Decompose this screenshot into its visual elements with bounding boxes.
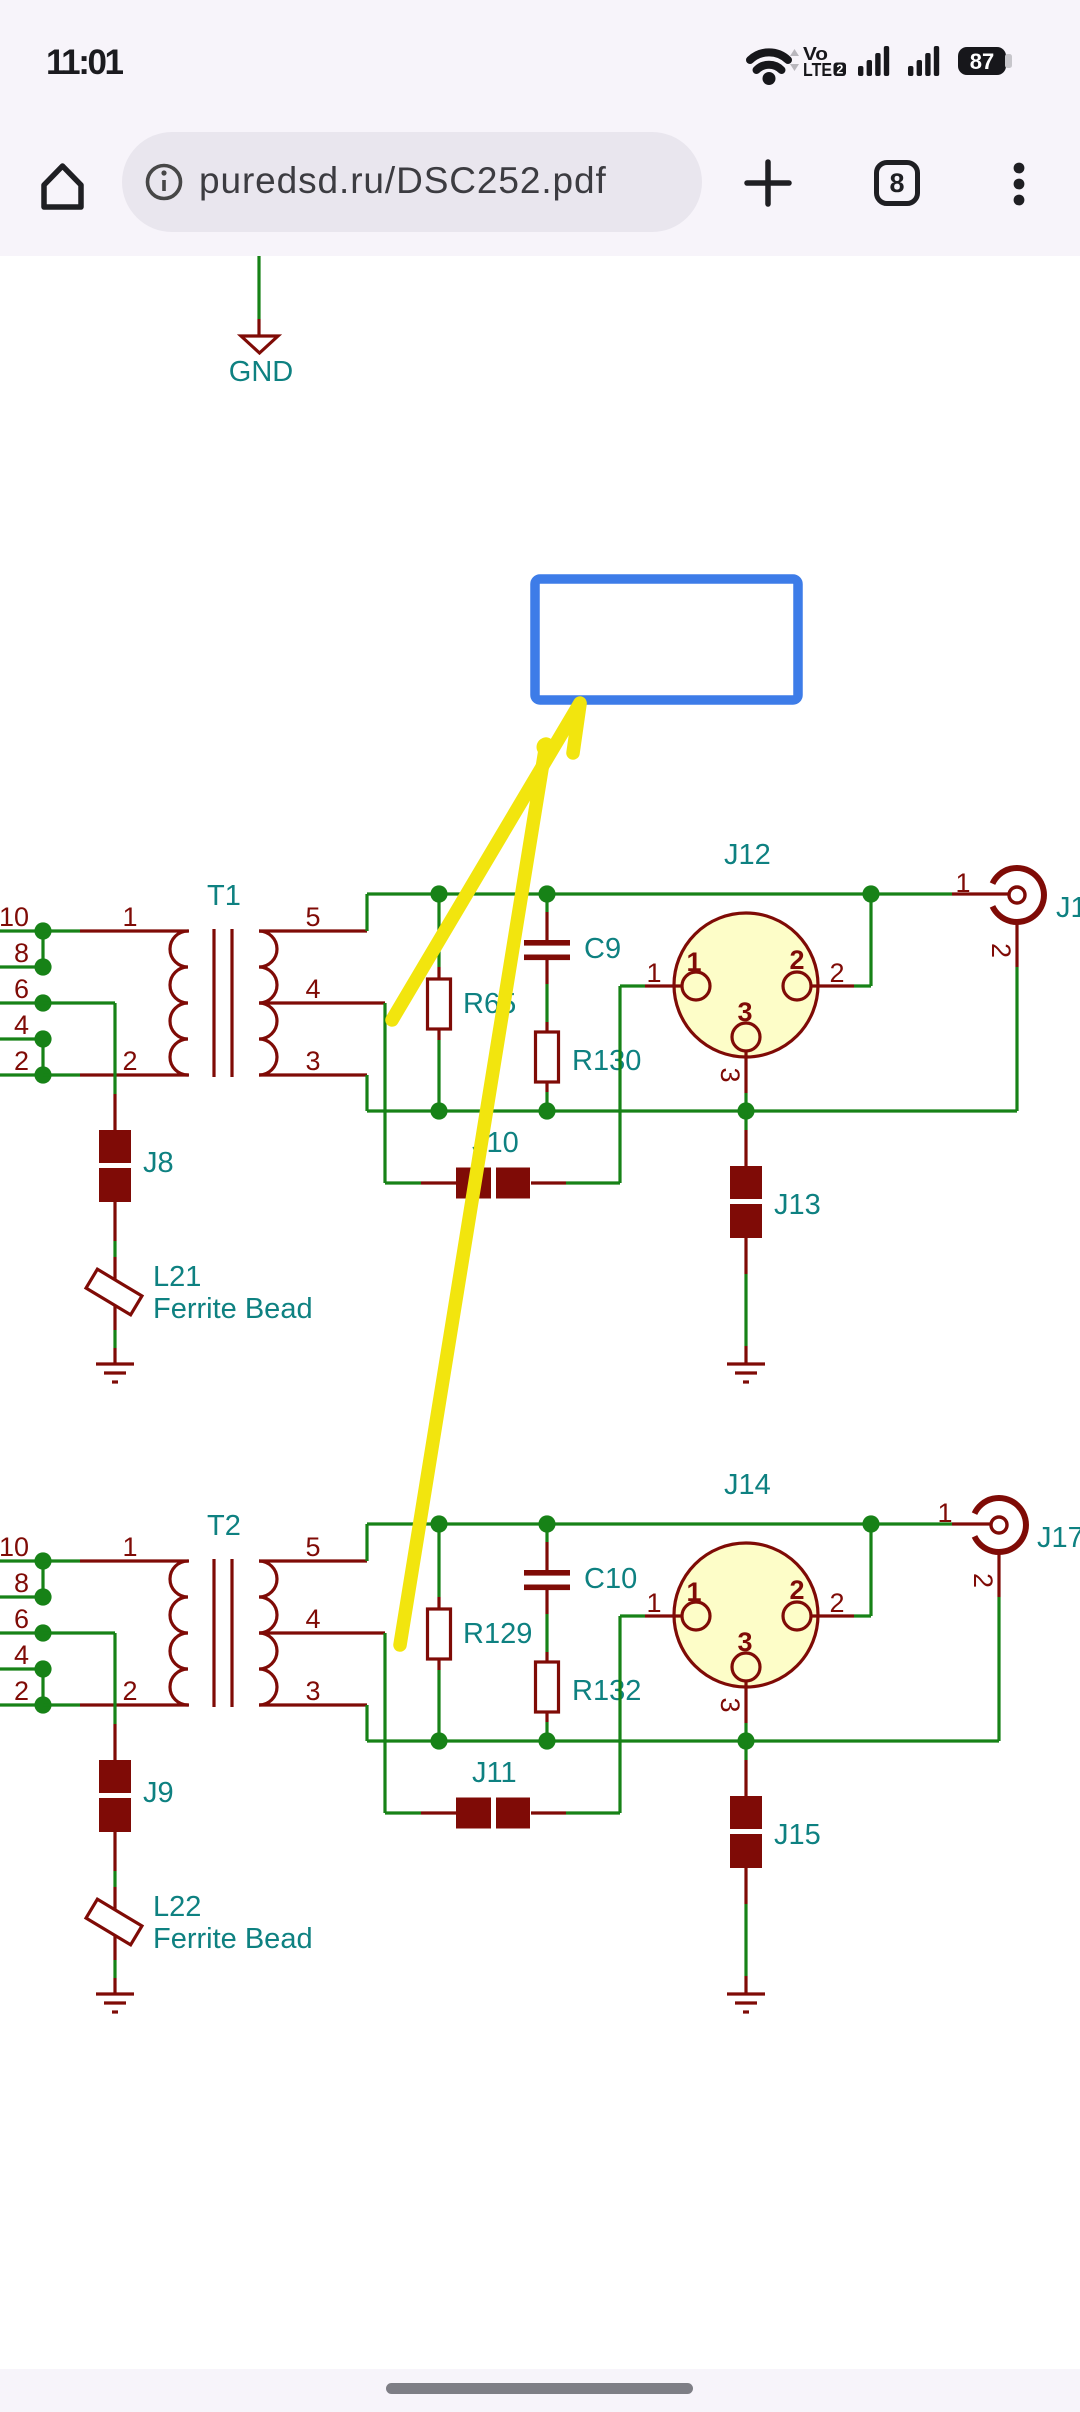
junction (737, 1102, 754, 1119)
ground pin (744, 1346, 747, 1363)
junction (34, 922, 51, 939)
jumper J15 (730, 1796, 821, 1868)
svg-text:2: 2 (829, 1588, 844, 1618)
svg-text:5: 5 (305, 902, 320, 932)
signal bars SIM1 (858, 46, 889, 76)
wire (385, 1181, 421, 1184)
wifi traffic arrows (790, 49, 799, 71)
coaxial connector J17 (975, 1498, 1080, 1554)
J16 pin2 stub (1015, 922, 1018, 967)
wire bus 10-8 (41, 931, 44, 967)
svg-text:2: 2 (836, 63, 843, 77)
wire (113, 1871, 116, 1887)
wire header pin 6 (0, 1631, 43, 1634)
svg-text:3: 3 (305, 1676, 320, 1706)
svg-text:GND: GND (229, 356, 293, 388)
J11 pin stub (531, 1811, 566, 1814)
svg-text:10: 10 (0, 902, 29, 932)
pin stub (437, 1029, 440, 1040)
XLR pin2 stub (811, 984, 854, 987)
L21 pin (113, 1257, 116, 1330)
wire (566, 1181, 620, 1184)
wire header pin 8 (0, 965, 43, 968)
XLR pin1 stub (645, 1614, 681, 1617)
wire bottom rail (367, 1739, 999, 1742)
XLR connector J12 (674, 839, 818, 1057)
wire (869, 894, 872, 986)
XLR pin3 stub (744, 1681, 747, 1723)
T pin 5 stub (259, 1559, 367, 1562)
wire (869, 1524, 872, 1616)
wire (744, 1111, 747, 1130)
coaxial connector J16 (993, 868, 1080, 924)
svg-text:87: 87 (970, 49, 994, 74)
pin stub (545, 1652, 548, 1662)
svg-text:1: 1 (686, 1577, 701, 1607)
junction (34, 994, 51, 1011)
wire (744, 1093, 747, 1111)
wire from GND net (257, 256, 260, 319)
svg-text:2: 2 (968, 1573, 998, 1588)
svg-text:2: 2 (14, 1676, 29, 1706)
pin stub (545, 1022, 548, 1032)
svg-text:6: 6 (14, 974, 29, 1004)
ground (96, 1364, 134, 1382)
svg-text:T2: T2 (207, 1510, 241, 1542)
svg-text:J9: J9 (143, 1777, 174, 1809)
svg-text:J12: J12 (724, 839, 771, 871)
svg-text:2: 2 (122, 1676, 137, 1706)
ground (96, 1994, 134, 2012)
svg-text:1: 1 (646, 1588, 661, 1618)
svg-text:C10: C10 (584, 1563, 637, 1595)
svg-text:C9: C9 (584, 933, 621, 965)
wire (744, 1741, 747, 1760)
wire header pin 8 (0, 1595, 43, 1598)
T pin 5 stub (259, 929, 367, 932)
T pin 4 stub (259, 1631, 385, 1634)
junction (862, 1515, 879, 1532)
wire (566, 1811, 620, 1814)
wire pin6 (43, 1001, 115, 1004)
transformer T2 (170, 1510, 277, 1707)
wire to T pin1 (43, 1559, 80, 1562)
svg-text:1: 1 (122, 1532, 137, 1562)
pin stub (437, 1597, 440, 1609)
ground GND power symbol (229, 336, 293, 388)
pin stub (545, 1711, 548, 1722)
svg-text:T1: T1 (207, 880, 241, 912)
svg-text:3: 3 (737, 997, 752, 1027)
J16 pin1 stub (952, 892, 1009, 895)
J17 pin2 stub (997, 1552, 1000, 1597)
svg-text:2: 2 (789, 1575, 804, 1605)
junction (34, 958, 51, 975)
svg-text:J8: J8 (143, 1147, 174, 1179)
svg-text:1: 1 (686, 947, 701, 977)
wire header pin 2 (0, 1073, 43, 1076)
J11 pin stub (421, 1811, 456, 1814)
T pin 4 stub (259, 1001, 385, 1004)
ground pin (744, 1976, 747, 1993)
wire bus 4-2 (41, 1039, 44, 1075)
J15 pin stub (744, 1868, 747, 1904)
wire (620, 1614, 645, 1617)
wire header pin 10 (0, 1559, 43, 1562)
wire (545, 984, 548, 1022)
capacitor C10 (524, 1563, 637, 1595)
svg-text:4: 4 (14, 1010, 29, 1040)
svg-text:3: 3 (305, 1046, 320, 1076)
wire pin5 riser (365, 1524, 368, 1561)
svg-text:L22: L22 (153, 1891, 201, 1923)
wire (744, 1723, 747, 1741)
junction (34, 1660, 51, 1677)
svg-text:J15: J15 (774, 1819, 821, 1851)
junction (538, 1102, 555, 1119)
resistor R130 (536, 1032, 642, 1082)
wifi icon (750, 52, 788, 70)
wire header pin 6 (0, 1001, 43, 1004)
wire (618, 1616, 621, 1813)
resistor R65 (428, 979, 517, 1029)
svg-text:Ferrite Bead: Ferrite Bead (153, 1293, 313, 1325)
svg-text:4: 4 (14, 1640, 29, 1670)
svg-text:J13: J13 (774, 1189, 821, 1221)
wire (437, 894, 440, 967)
T pin 2 stub (80, 1073, 189, 1076)
ground (727, 1364, 765, 1382)
wire pin5 riser (365, 894, 368, 931)
info icon (148, 166, 181, 199)
wire pin3 drop (365, 1075, 368, 1111)
svg-text:1: 1 (122, 902, 137, 932)
J17 pin1 stub (952, 1522, 991, 1525)
J13 pin stub (744, 1130, 747, 1166)
J8 pin stub (113, 1094, 116, 1132)
junction (430, 885, 447, 902)
transformer T1 (170, 880, 277, 1077)
svg-text:J17: J17 (1037, 1522, 1080, 1554)
svg-text:2: 2 (829, 958, 844, 988)
T pin 1 stub (80, 929, 189, 932)
wire top rail (367, 892, 952, 895)
wire (545, 894, 548, 912)
ferrite bead L21 (86, 1261, 313, 1325)
svg-text:3: 3 (715, 1697, 745, 1712)
ground pin (113, 1978, 116, 1993)
junction (538, 885, 555, 902)
J9 pin stub (113, 1832, 116, 1871)
wire bus 10-8 (41, 1561, 44, 1597)
svg-text:L21: L21 (153, 1261, 201, 1293)
wire (744, 1904, 747, 1976)
wire to T pin2 (43, 1073, 80, 1076)
jumper J8 (99, 1130, 174, 1202)
J8 pin stub (113, 1202, 116, 1241)
junction (430, 1515, 447, 1532)
resistor R132 (536, 1662, 642, 1712)
annotation marker stroke (long) (400, 744, 546, 1645)
wire (545, 1524, 548, 1542)
ground (727, 1994, 765, 2012)
wire pin4 drop (383, 1633, 386, 1813)
jumper J13 (730, 1166, 821, 1238)
wire (437, 1670, 440, 1741)
junction (538, 1515, 555, 1532)
junction (34, 1588, 51, 1605)
wire (437, 1524, 440, 1597)
svg-text:8: 8 (14, 938, 29, 968)
wire bus 4-2 (41, 1669, 44, 1705)
svg-text:2: 2 (986, 943, 1016, 958)
wire (113, 1241, 116, 1257)
T pin 3 stub (259, 1073, 367, 1076)
wire (113, 1960, 116, 1978)
wire pin3 drop (365, 1705, 368, 1741)
wire header pin 4 (0, 1037, 43, 1040)
junction (34, 1624, 51, 1641)
wire header pin 2 (0, 1703, 43, 1706)
wire (997, 1597, 1000, 1741)
pin stub (545, 912, 548, 941)
svg-text:11:01: 11:01 (46, 43, 124, 82)
svg-text:LTE: LTE (803, 60, 832, 80)
wire pin4 drop (383, 1003, 386, 1183)
svg-text:2: 2 (14, 1046, 29, 1076)
svg-text:J11: J11 (472, 1757, 517, 1789)
wire (854, 1614, 871, 1617)
svg-text:2: 2 (789, 945, 804, 975)
svg-text:2: 2 (122, 1046, 137, 1076)
page url text (199, 160, 607, 202)
ferrite bead L22 (86, 1891, 313, 1955)
junction (538, 1732, 555, 1749)
junction (34, 1696, 51, 1713)
pin stub (437, 1659, 440, 1670)
bottom nav background (0, 2369, 1080, 2412)
jumper J9 (99, 1760, 174, 1832)
J9 pin stub (113, 1724, 116, 1762)
tab counter button (874, 160, 920, 206)
wire (854, 984, 871, 987)
svg-text:3: 3 (715, 1067, 745, 1082)
gesture handle (386, 2383, 693, 2394)
wire top rail (367, 1522, 952, 1525)
T pin 3 stub (259, 1703, 367, 1706)
wire (1015, 967, 1018, 1111)
wire (385, 1811, 421, 1814)
url pill (122, 132, 702, 232)
wire header pin 10 (0, 929, 43, 932)
svg-text:1: 1 (646, 958, 661, 988)
GND pin (257, 319, 260, 336)
svg-text:10: 10 (0, 1532, 29, 1562)
resistor R129 (428, 1609, 533, 1659)
svg-text:4: 4 (305, 974, 320, 1004)
annotation marker arrow barb (573, 704, 580, 753)
J10 pin stub (531, 1181, 566, 1184)
junction (430, 1732, 447, 1749)
jumper J10 (456, 1127, 530, 1199)
svg-text:R129: R129 (463, 1618, 532, 1650)
svg-text:R132: R132 (572, 1675, 641, 1707)
XLR connector J14 (674, 1469, 818, 1687)
J13 pin stub (744, 1238, 747, 1274)
svg-text:1: 1 (955, 868, 970, 898)
svg-text:J14: J14 (724, 1469, 771, 1501)
svg-text:Ferrite Bead: Ferrite Bead (153, 1923, 313, 1955)
pin stub (545, 1590, 548, 1614)
capacitor C9 (524, 933, 621, 965)
svg-text:J16: J16 (1056, 892, 1080, 924)
J15 pin stub (744, 1760, 747, 1796)
home button (44, 166, 81, 207)
junction (34, 1030, 51, 1047)
junction (862, 885, 879, 902)
junction (737, 1732, 754, 1749)
wire (618, 986, 621, 1183)
jumper J11 (456, 1757, 530, 1829)
wire (545, 1722, 548, 1741)
pin stub (437, 967, 440, 979)
wire (113, 1330, 116, 1348)
ground pin (113, 1348, 116, 1363)
pin stub (545, 1542, 548, 1571)
wire bottom rail (367, 1109, 1017, 1112)
svg-text:8: 8 (14, 1568, 29, 1598)
XLR pin1 stub (645, 984, 681, 987)
annotation highlight rectangle (535, 579, 798, 700)
svg-text:6: 6 (14, 1604, 29, 1634)
junction (34, 1066, 51, 1083)
XLR pin2 stub (811, 1614, 854, 1617)
pin stub (545, 960, 548, 984)
wire (744, 1274, 747, 1346)
svg-text:3: 3 (737, 1627, 752, 1657)
L22 pin (113, 1887, 116, 1960)
J10 pin stub (421, 1181, 456, 1184)
svg-text:R130: R130 (572, 1045, 641, 1077)
wire drop to J8 (113, 1003, 116, 1094)
wire pin6 (43, 1631, 115, 1634)
menu kebab (1014, 163, 1025, 206)
wire to T pin1 (43, 929, 80, 932)
wire (620, 984, 645, 987)
wire (437, 1040, 440, 1111)
new tab plus (747, 162, 789, 204)
pin stub (545, 1081, 548, 1092)
junction (34, 1552, 51, 1569)
wire (545, 1614, 548, 1652)
wire header pin 4 (0, 1667, 43, 1670)
junction (430, 1102, 447, 1119)
svg-text:5: 5 (305, 1532, 320, 1562)
svg-text:1: 1 (937, 1498, 952, 1528)
svg-text:4: 4 (305, 1604, 320, 1634)
XLR pin3 stub (744, 1051, 747, 1093)
wire drop to J9 (113, 1633, 116, 1724)
status bar background (0, 0, 1080, 256)
wire (545, 1092, 548, 1111)
signal bars SIM2 (908, 46, 939, 76)
battery 87 (958, 47, 1006, 75)
wire to T pin2 (43, 1703, 80, 1706)
annotation marker arrow shaft (392, 703, 580, 1020)
T pin 1 stub (80, 1559, 189, 1562)
T pin 2 stub (80, 1703, 189, 1706)
